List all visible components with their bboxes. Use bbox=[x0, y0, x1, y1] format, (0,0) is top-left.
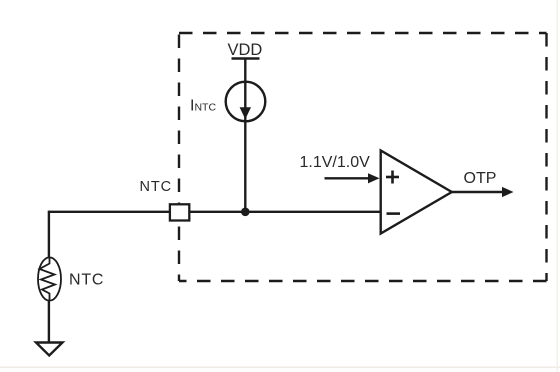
reference arrow wire 1.1V/1.0V bbox=[325, 177, 372, 179]
wire: left vertical down to thermistor bbox=[48, 211, 50, 258]
junction node dot bbox=[241, 208, 250, 217]
wire: thermistor to ground bbox=[48, 300, 50, 343]
IC boundary dashed box bbox=[179, 33, 547, 281]
NTC thermistor zigzag bbox=[40, 258, 56, 301]
output wire OTP bbox=[452, 191, 505, 193]
reference arrowhead bbox=[368, 173, 380, 183]
svg-text:NTC: NTC bbox=[140, 179, 173, 195]
NTC thermistor ellipse bbox=[38, 257, 61, 300]
svg-text:OTP: OTP bbox=[464, 170, 497, 187]
wire: VDD bar down through current source to junction bbox=[244, 59, 246, 212]
current source I_NTC circle bbox=[226, 82, 266, 122]
faint page border bottom bbox=[0, 367, 560, 369]
comparator - input symbol bbox=[387, 212, 401, 215]
output arrowhead bbox=[502, 187, 514, 197]
comparator U1 triangle bbox=[381, 151, 452, 234]
svg-text:VDD: VDD bbox=[228, 41, 263, 59]
main horizontal wire bbox=[49, 211, 381, 213]
current source arrowhead (down) bbox=[240, 107, 251, 119]
faint page border right bbox=[557, 0, 559, 372]
svg-text:1.1V/1.0V: 1.1V/1.0V bbox=[300, 154, 371, 171]
ground symbol bbox=[36, 343, 63, 356]
VDD supply bar bbox=[232, 57, 260, 60]
NTC pin square bbox=[170, 204, 189, 220]
comparator + input symbol bbox=[386, 171, 399, 184]
svg-text:NTC: NTC bbox=[69, 272, 104, 289]
